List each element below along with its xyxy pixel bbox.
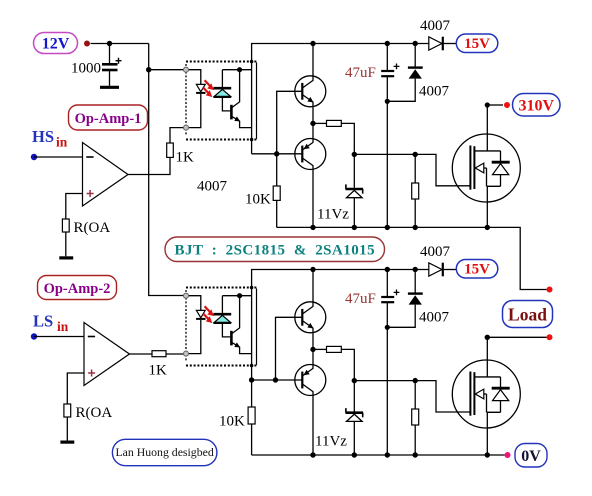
- svg-text:12V: 12V: [42, 36, 70, 53]
- svg-text:15V: 15V: [464, 36, 490, 52]
- optocoupler U4 dashed box: [186, 288, 257, 366]
- ground for C1: [100, 86, 119, 89]
- node Load lower terminal: [547, 334, 553, 340]
- svg-text:4007: 4007: [420, 18, 451, 34]
- junction rail2 / Q3 collector: [310, 267, 315, 272]
- svg-text:47uF: 47uF: [345, 291, 376, 307]
- junction rail3 / M2 source: [485, 452, 490, 457]
- label 0V: [515, 444, 547, 468]
- wire HS input to op-amp: [34, 156, 83, 158]
- ground for R(OA U2: [60, 441, 74, 444]
- svg-text:R(OA: R(OA: [76, 405, 113, 421]
- photodiode inside U4: [213, 296, 231, 337]
- wire U2 plus input to R(OA: [67, 373, 84, 404]
- pin cathode U3: [184, 125, 189, 130]
- svg-text:Load: Load: [508, 305, 547, 325]
- junction rail3 / Z2: [352, 452, 357, 457]
- junction rail2 / C3: [385, 267, 390, 272]
- ground for R(OA U1: [59, 256, 73, 259]
- light arrows U3: [203, 80, 214, 97]
- svg-text:4007: 4007: [420, 244, 451, 260]
- svg-text:4007: 4007: [419, 84, 450, 100]
- junction rail3 / Q4 collector: [310, 452, 315, 457]
- node HS input terminal: [31, 154, 37, 160]
- diode D2 4007: [387, 44, 449, 102]
- label 15V bottom: [456, 260, 498, 279]
- node corner M2 drain: [485, 335, 490, 340]
- phototransistor inside U3: [222, 67, 251, 128]
- capacitor C3 47uF: [345, 270, 399, 456]
- node U3 border crossings: [250, 60, 254, 64]
- diode D3 4007 to 15V: [420, 244, 456, 276]
- svg-text:Op-Amp-1: Op-Amp-1: [75, 111, 142, 127]
- junction rail / Z1: [352, 225, 357, 230]
- resistor R2 1K: [167, 143, 174, 157]
- zener Z2 11Vz: [315, 381, 363, 455]
- svg-text:47uF: 47uF: [345, 65, 376, 81]
- pin anode U3: [184, 67, 189, 72]
- junction gate2 / zener Z2: [352, 378, 357, 383]
- capacitor C2 47uF: [345, 44, 399, 228]
- resistor R6 1K: [152, 351, 166, 357]
- svg-text:LS: LS: [33, 312, 53, 331]
- pin plus U1: [87, 190, 94, 197]
- junction base line / R7 10K: [249, 377, 254, 382]
- op-amp U2 Op-Amp-2: [84, 323, 130, 386]
- wire U2 output: [130, 353, 153, 355]
- junction rail / C2: [385, 41, 390, 46]
- junction Q1/Q2 emitters: [310, 121, 315, 126]
- wire U4 collector riser and 15V bottom rail: [252, 270, 429, 381]
- junction C3 / D4 return: [385, 325, 390, 330]
- wire U1 plus input to R(OA: [66, 194, 83, 220]
- label Lan Huong designer: [112, 439, 216, 465]
- svg-text:4007: 4007: [197, 179, 228, 195]
- svg-text:HS: HS: [32, 127, 54, 146]
- junction rail / Q2 collector: [310, 225, 315, 230]
- wire U4 emitter to base line: [252, 379, 302, 381]
- junction Q3/Q4 emitters: [310, 347, 315, 352]
- wire R6 to opto U4 cathode pin: [166, 353, 184, 355]
- wire to opto U3 anode pin: [149, 69, 184, 71]
- svg-text:Lan Huong desigbed: Lan Huong desigbed: [115, 445, 213, 459]
- optocoupler U3 dashed box: [186, 62, 257, 140]
- label Op-Amp-1: [69, 105, 148, 130]
- junction rail3 / C3: [385, 452, 390, 457]
- LED inside U4: [186, 296, 206, 354]
- svg-text:BJT : 2SC1815 & 2SA1015: BJT : 2SC1815 & 2SA1015: [175, 243, 376, 259]
- label Op-Amp-2: [38, 276, 117, 300]
- pin cathode U4: [184, 351, 189, 356]
- wire riser to Q3 base: [276, 317, 302, 380]
- label 12V supply: [34, 33, 78, 54]
- junction 12V rail to opto U3: [146, 67, 151, 72]
- LED inside U3: [186, 70, 206, 128]
- wire source rail top section to Load: [277, 227, 547, 289]
- junction gate line / R5: [413, 152, 418, 157]
- junction rail / R5: [413, 225, 418, 230]
- svg-text:10K: 10K: [219, 414, 245, 430]
- svg-text:15V: 15V: [464, 262, 490, 278]
- junction base line / R3 10K: [274, 151, 279, 156]
- wire U3 emitter to base line: [252, 153, 302, 155]
- pin plus U2: [88, 370, 95, 377]
- resistor R(OA of U2: [64, 404, 71, 417]
- wire gate line top section: [354, 154, 470, 185]
- wire ground rail bottom section: [252, 454, 505, 456]
- pin anode U4: [184, 293, 189, 298]
- label BJT types: [165, 237, 385, 262]
- transistor Q1 2SC1815: [295, 44, 326, 124]
- resistor R5 gate-source: [412, 154, 419, 227]
- svg-text:11Vz: 11Vz: [317, 207, 349, 223]
- label 310V: [513, 94, 561, 117]
- wire LS input to op-amp: [34, 336, 84, 338]
- wire U3 collector riser and 15V top rail: [252, 44, 429, 154]
- svg-text:1K: 1K: [176, 150, 195, 166]
- junction C2 / D2 return: [385, 99, 390, 104]
- wire R(OA2 to ground: [66, 417, 68, 441]
- wire 12V rail down left side to opto U4: [149, 44, 184, 296]
- svg-text:4007: 4007: [419, 310, 450, 326]
- resistor R(OA of U1: [62, 219, 69, 232]
- node Load upper terminal: [547, 287, 553, 293]
- junction rail / C2: [385, 225, 390, 230]
- junction gate2 / R9: [413, 378, 418, 383]
- label 15V top: [456, 34, 498, 53]
- junction rail / Q1 collector: [310, 41, 315, 46]
- junction rail / D2: [413, 41, 418, 46]
- label Load: [503, 301, 553, 328]
- MOSFET M1: [452, 105, 520, 227]
- wire 12V feed to rail: [91, 43, 149, 45]
- svg-text:1K: 1K: [149, 363, 168, 379]
- wire gate line bottom section: [354, 381, 470, 412]
- pin minus U2: [88, 336, 95, 338]
- svg-text:in: in: [57, 319, 69, 334]
- photodiode inside U3: [213, 70, 231, 111]
- capacitor C1 1000uF: [71, 44, 122, 86]
- junction rail2 / D4: [413, 267, 418, 272]
- transistor Q2 2SA1015: [295, 123, 326, 227]
- svg-text:310V: 310V: [519, 98, 555, 115]
- svg-text:11Vz: 11Vz: [315, 434, 347, 450]
- junction gate line / zener Z1: [352, 152, 357, 157]
- diode D1 4007 to 15V: [420, 18, 456, 50]
- node corner 310V: [485, 102, 490, 107]
- node 12V terminal dot: [84, 41, 90, 47]
- junction rail / M1 source: [485, 225, 490, 230]
- svg-text:in: in: [56, 135, 68, 150]
- svg-text:10K: 10K: [245, 192, 271, 208]
- transistor Q4 2SA1015: [295, 349, 326, 455]
- wire R(OA to ground: [65, 232, 67, 256]
- resistor R4 emitter output: [313, 120, 354, 154]
- junction rail3 / R9: [413, 452, 418, 457]
- light arrows U4: [203, 306, 214, 323]
- pin minus U1: [86, 156, 93, 158]
- phototransistor inside U4: [222, 293, 251, 354]
- svg-text:R(OA: R(OA: [74, 220, 111, 236]
- resistor R7 10K: [219, 380, 255, 455]
- svg-text:0V: 0V: [521, 448, 541, 465]
- MOSFET M2: [452, 337, 520, 455]
- zener Z1 11Vz: [317, 154, 363, 227]
- resistor R9 gate-source: [412, 381, 419, 455]
- transistor Q3 2SC1815: [295, 270, 326, 350]
- junction at capacitor C1: [107, 41, 112, 46]
- resistor R8 emitter output: [313, 346, 354, 380]
- node LS input terminal: [31, 333, 37, 339]
- node 310V terminal dot: [504, 102, 510, 108]
- diode D4 4007: [387, 270, 449, 328]
- resistor R3 10K: [245, 154, 280, 228]
- wire M2 drain to Load lower terminal: [487, 336, 546, 338]
- wire R2 to opto U3 cathode pin: [170, 128, 184, 143]
- node U4 border crossings: [250, 286, 254, 290]
- wire 310V to M1 drain: [487, 104, 503, 106]
- junction base line / riser: [273, 377, 278, 382]
- svg-text:1000: 1000: [71, 61, 101, 77]
- wire U1 output to resistor R2: [128, 157, 170, 174]
- op-amp U1 Op-Amp-1: [83, 143, 129, 207]
- node 0V terminal dot: [505, 452, 511, 458]
- svg-text:Op-Amp-2: Op-Amp-2: [44, 281, 111, 297]
- wire riser to Q1 base: [277, 91, 302, 154]
